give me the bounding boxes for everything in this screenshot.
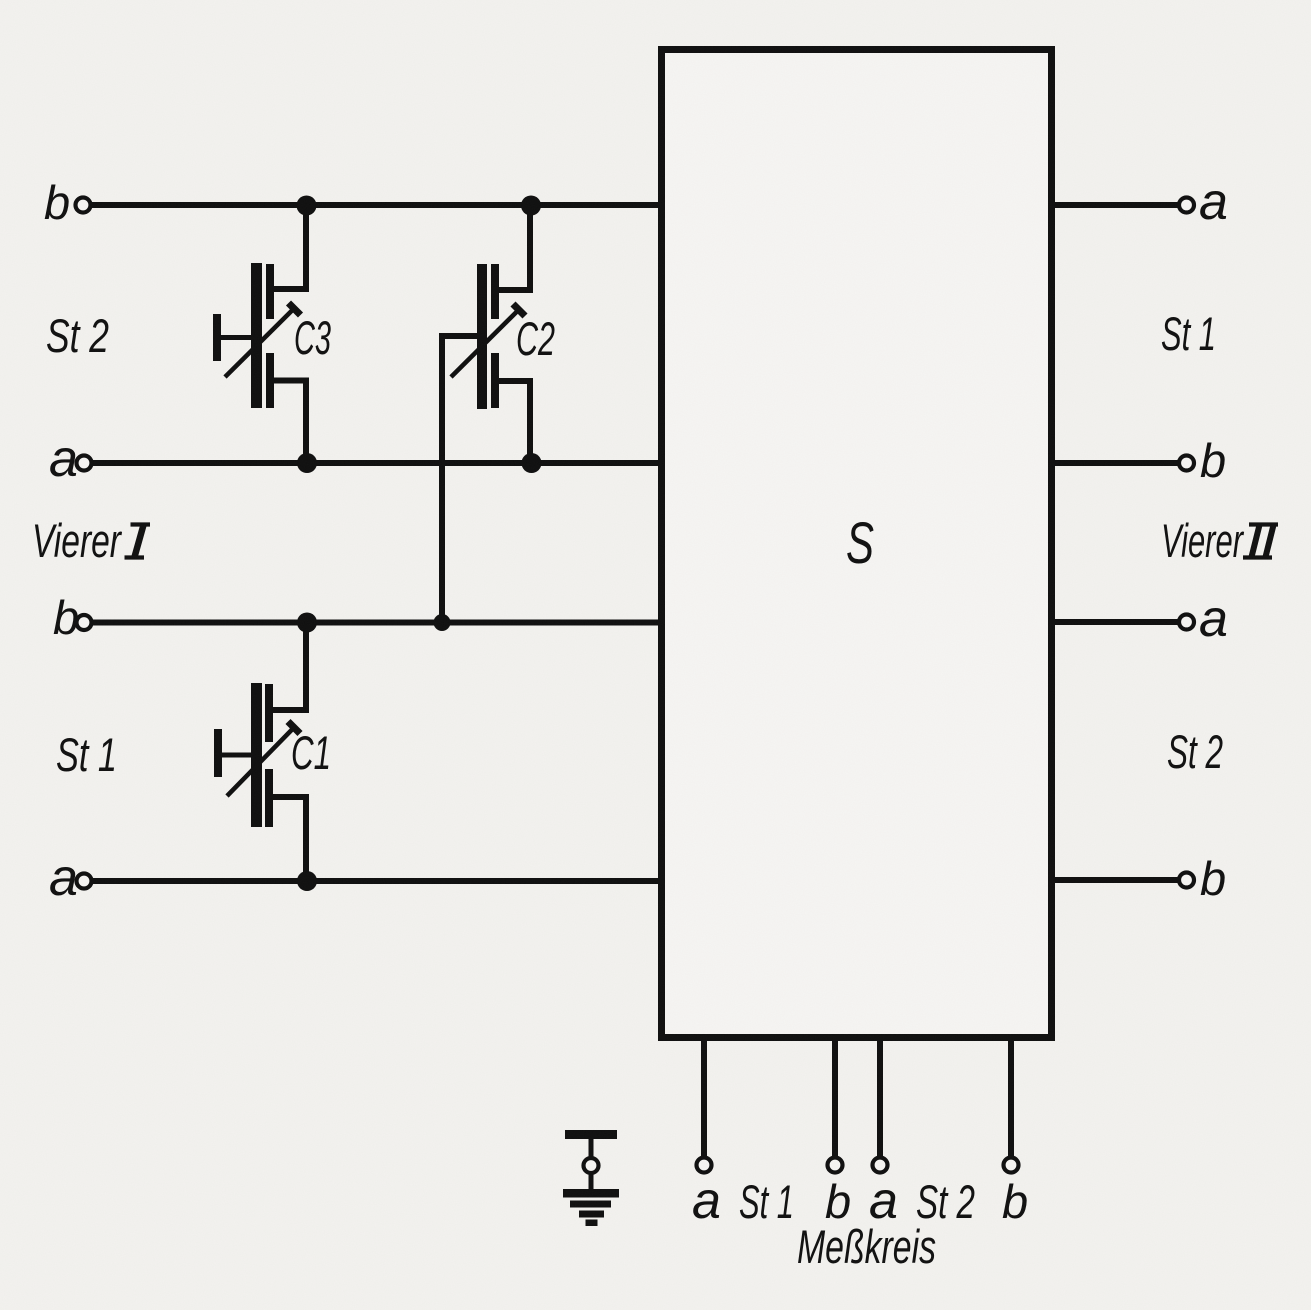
wire C2 rotor lead down to line 3 xyxy=(442,336,479,620)
wire box to terminal b (Vierer II St2) xyxy=(1053,877,1178,883)
ground symbol with test terminal xyxy=(563,1130,619,1226)
wire C1 bottom lead to line 4 xyxy=(273,797,306,879)
junction on line 4 at C1 xyxy=(297,871,317,891)
terminal b (Messkreis St2) xyxy=(1004,1158,1019,1173)
junction on line 2 at C3 xyxy=(297,453,317,473)
capacitor C1 (differential trimmer) xyxy=(214,683,300,827)
wire C3 top lead to line 1 xyxy=(272,205,306,289)
junction on line 3 at C1 xyxy=(297,613,317,633)
terminal a (Vierer II St1) xyxy=(1179,198,1194,213)
wire box to measuring terminal a St2 xyxy=(877,1041,883,1157)
wire box to terminal a (Vierer II St2) xyxy=(1053,619,1178,625)
block S (switching network box) xyxy=(662,50,1052,1038)
wire a (Vierer I, St1) line 4 xyxy=(93,878,659,884)
terminal a (Messkreis St2) xyxy=(873,1158,888,1173)
terminal a (Vierer I St2) xyxy=(77,456,92,471)
terminal b (Vierer II St2) xyxy=(1179,873,1194,888)
wire box to terminal a (Vierer II St1) xyxy=(1053,202,1178,208)
terminal a (Messkreis St1) xyxy=(697,1158,712,1173)
wire box to measuring terminal a St1 xyxy=(701,1041,707,1157)
wire C1 top lead to line 3 xyxy=(273,624,306,710)
capacitor C3 (differential trimmer) xyxy=(213,263,301,408)
wire box to terminal b (Vierer II St1) xyxy=(1053,460,1178,466)
capacitor C2 (differential trimmer) xyxy=(451,264,525,409)
terminal b (Messkreis St1) xyxy=(828,1158,843,1173)
junction on line 2 at C2 xyxy=(522,453,542,473)
wire C2 top lead to line 1 xyxy=(497,205,530,290)
wire box to measuring terminal b St1 xyxy=(832,1041,838,1157)
terminal b (Vierer I St2) xyxy=(76,198,91,213)
wire b (Vierer I, St2) line 1 xyxy=(91,202,659,208)
terminal a (Vierer II St2) xyxy=(1179,615,1194,630)
terminal b (Vierer I St1) xyxy=(77,615,92,630)
wire a (Vierer I, St2) line 2 xyxy=(93,460,659,466)
wire C3 bottom lead to line 2 xyxy=(272,381,306,462)
terminal b (Vierer II St1) xyxy=(1179,456,1194,471)
junction on line 1 at C2 xyxy=(521,196,541,216)
wire b (Vierer I, St1) line 3 xyxy=(93,620,659,626)
terminal a (Vierer I St1) xyxy=(77,874,92,889)
junction on line 1 at C3 xyxy=(297,196,317,216)
wire C2 bottom lead to line 2 xyxy=(497,381,530,461)
wire box to measuring terminal b St2 xyxy=(1008,1041,1014,1157)
junction on line 3 at C2 lead xyxy=(434,614,451,631)
